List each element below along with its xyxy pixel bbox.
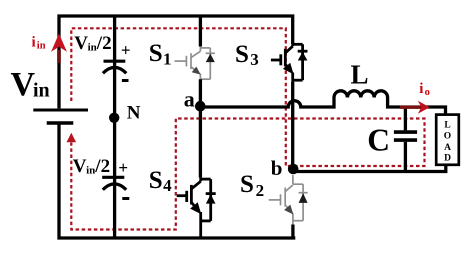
svg-text:S: S [240, 171, 254, 198]
svg-text:in: in [37, 41, 46, 52]
svg-text:A: A [444, 143, 451, 153]
svg-text:O: O [444, 132, 451, 142]
svg-text:+: + [121, 40, 131, 59]
svg-text:N: N [127, 102, 141, 123]
svg-text:4: 4 [163, 176, 172, 195]
svg-text:V: V [74, 33, 88, 54]
svg-text:V: V [11, 66, 36, 103]
svg-text:b: b [271, 156, 283, 180]
svg-text:S: S [235, 41, 249, 68]
svg-text:i: i [32, 35, 36, 51]
svg-text:V: V [73, 156, 87, 177]
svg-text:a: a [184, 87, 195, 112]
svg-text:in: in [33, 80, 50, 102]
svg-text:L: L [351, 59, 369, 89]
svg-text:S: S [149, 40, 163, 67]
svg-text:+: + [118, 158, 128, 177]
svg-text:3: 3 [250, 50, 258, 69]
svg-text:D: D [444, 154, 451, 164]
svg-text:1: 1 [163, 49, 172, 68]
svg-text:i: i [419, 81, 423, 97]
svg-text:/2: /2 [94, 156, 110, 177]
svg-text:o: o [425, 87, 430, 98]
svg-text:L: L [444, 121, 450, 131]
svg-text:/2: /2 [96, 33, 112, 54]
svg-text:S: S [149, 167, 163, 194]
svg-text:in: in [88, 41, 97, 53]
svg-text:C: C [367, 123, 390, 158]
svg-text:2: 2 [256, 181, 265, 200]
svg-text:in: in [86, 164, 95, 176]
